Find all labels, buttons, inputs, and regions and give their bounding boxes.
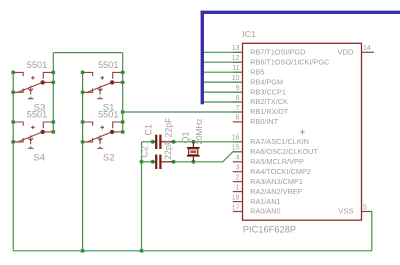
svg-text:5501: 5501 xyxy=(27,60,47,70)
wire switch columns top connector xyxy=(53,52,122,54)
svg-text:VDD: VDD xyxy=(337,48,354,57)
svg-text:RA6/OSC2/CLKOUT: RA6/OSC2/CLKOUT xyxy=(250,147,318,156)
svg-text:9: 9 xyxy=(236,85,240,92)
switch S2 xyxy=(83,122,123,148)
svg-text:18: 18 xyxy=(232,194,240,201)
svg-text:12: 12 xyxy=(232,55,240,62)
svg-text:4: 4 xyxy=(236,155,240,162)
svg-text:1: 1 xyxy=(236,184,240,191)
switch S3 xyxy=(13,72,53,98)
svg-text:RB0/INT: RB0/INT xyxy=(250,117,279,126)
wire OSC1 row left of C1 xyxy=(142,141,153,143)
IC1 internal plus mark xyxy=(300,130,304,134)
svg-text:S3: S3 xyxy=(34,103,46,114)
svg-text:RA7/ASC1/CLKIN: RA7/ASC1/CLKIN xyxy=(250,137,309,146)
svg-text:RB1/RX/DT: RB1/RX/DT xyxy=(250,107,289,116)
wire bus entry to pin 11 xyxy=(204,71,243,73)
svg-text:RA0/AN0: RA0/AN0 xyxy=(250,207,280,216)
wire OSC2 row left of C2 xyxy=(142,161,153,163)
svg-text:22pF: 22pF xyxy=(163,117,173,138)
IC1 right pin stub pin 14 VDD xyxy=(362,51,374,53)
wire column1 right rail xyxy=(52,53,54,132)
wire ground bottom rail xyxy=(13,250,372,252)
svg-text:13: 13 xyxy=(232,45,240,52)
pin numbers right side xyxy=(363,45,371,211)
svg-text:7: 7 xyxy=(236,105,240,112)
svg-text:Q1: Q1 xyxy=(181,131,191,143)
svg-text:RB4/PGM: RB4/PGM xyxy=(250,77,283,86)
wire bus entry to pin 8 xyxy=(204,101,243,103)
pin numbers left side xyxy=(232,45,240,211)
svg-text:RA2/AN2/VREF: RA2/AN2/VREF xyxy=(250,187,302,196)
capacitor C1 xyxy=(153,135,174,149)
svg-text:5: 5 xyxy=(363,204,367,211)
svg-text:10: 10 xyxy=(232,75,240,82)
svg-text:RB3/CCP1: RB3/CCP1 xyxy=(250,87,286,96)
wire bus entry to pin 12 xyxy=(204,61,243,63)
wire column2 right rail xyxy=(122,53,124,132)
svg-text:15: 15 xyxy=(232,145,240,152)
svg-text:RA1/AN1: RA1/AN1 xyxy=(250,197,280,206)
wire column1 left rail to ground xyxy=(12,72,14,250)
svg-text:C2: C2 xyxy=(139,146,149,158)
wire OSC2 row and diagonal to pin 15 xyxy=(174,152,243,162)
capacitor C2 xyxy=(153,155,174,169)
svg-text:RA4/TOCKI/CMP2: RA4/TOCKI/CMP2 xyxy=(250,167,311,176)
power pin names VDD VSS xyxy=(337,48,354,216)
svg-text:RA3/AN3/CMP1: RA3/AN3/CMP1 xyxy=(250,177,303,186)
switch S1 xyxy=(83,72,123,98)
wire bus entry to pin 9 xyxy=(204,91,243,93)
bus B1 vertical segment xyxy=(201,11,204,105)
svg-text:S1: S1 xyxy=(103,103,115,114)
svg-text:S2: S2 xyxy=(103,152,115,163)
svg-text:C1: C1 xyxy=(143,124,153,136)
svg-text:17: 17 xyxy=(232,204,240,211)
svg-text:RA5/MCLR/VPP: RA5/MCLR/VPP xyxy=(250,157,304,166)
junction dots oscillator rows xyxy=(140,140,196,164)
svg-text:11: 11 xyxy=(232,65,239,72)
svg-text:S4: S4 xyxy=(33,152,45,163)
svg-text:RB6/T1OSO/1ICKI/PGC: RB6/T1OSO/1ICKI/PGC xyxy=(250,57,329,66)
IC1 box PIC16F628P xyxy=(243,43,362,220)
junction dots ground rail xyxy=(81,249,144,253)
pin names xyxy=(250,48,329,216)
svg-text:RB7/T1OSI/PGD: RB7/T1OSI/PGD xyxy=(250,48,305,57)
svg-text:VSS: VSS xyxy=(338,207,353,216)
junction dots switch rails xyxy=(11,70,125,143)
svg-text:6: 6 xyxy=(236,115,240,122)
wire column2 left rail to ground xyxy=(82,72,84,250)
wire capacitors ground vertical xyxy=(141,142,143,251)
wire bus entry to pin 13 xyxy=(204,51,243,53)
svg-text:20MHz: 20MHz xyxy=(195,119,204,145)
svg-text:8: 8 xyxy=(236,95,240,102)
svg-text:22pF: 22pF xyxy=(163,139,173,160)
bus B1 horizontal segment xyxy=(201,11,400,14)
wire VSS pin5 to ground rail xyxy=(370,212,372,251)
switch S4 xyxy=(13,122,53,148)
wire RB1 net from switch rail to pin 7 xyxy=(123,111,243,113)
wire OSC1 row to pin 16 xyxy=(174,141,243,143)
crystal Q1 xyxy=(187,142,200,162)
svg-text:RB5: RB5 xyxy=(250,67,264,76)
svg-text:14: 14 xyxy=(363,45,371,52)
IC1 right pin stub pin 5 VSS xyxy=(362,211,372,213)
svg-text:5501: 5501 xyxy=(98,60,118,70)
svg-text:PIC16F628P: PIC16F628P xyxy=(243,224,296,234)
svg-text:RB2/TX/CK: RB2/TX/CK xyxy=(250,97,288,106)
svg-text:16: 16 xyxy=(232,135,240,142)
svg-text:2: 2 xyxy=(236,174,240,181)
wire bus entry to pin 10 xyxy=(204,81,243,83)
IC1 left pin stubs pins 13,12,11,10,9,8,7,6,16,15,4,3,2,1,18,17 xyxy=(233,52,243,211)
svg-text:3: 3 xyxy=(236,165,240,172)
svg-text:IC1: IC1 xyxy=(242,29,256,39)
